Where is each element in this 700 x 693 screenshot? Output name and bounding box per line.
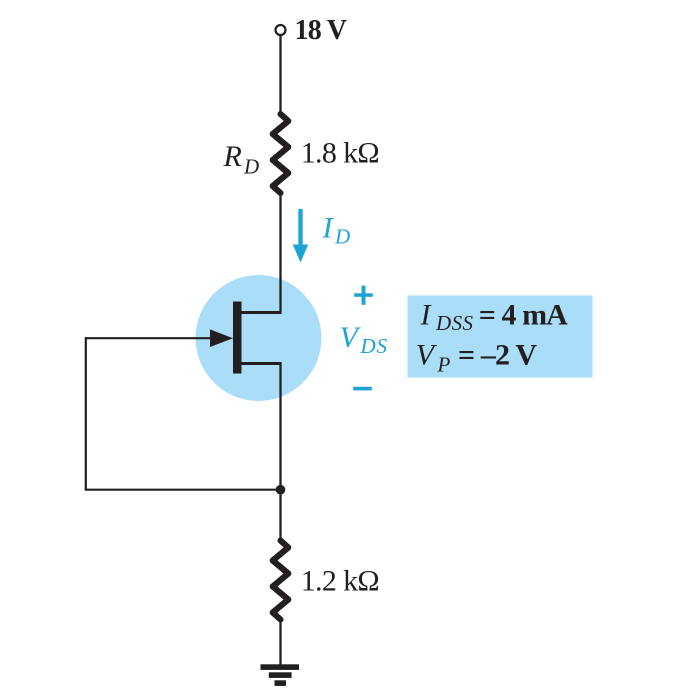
svg-text:= 4 mA: = 4 mA: [479, 299, 568, 332]
wire: feedback bottom horizontal: [85, 489, 281, 491]
terminal VDD: [276, 25, 286, 35]
wire: RD to drain: [279, 193, 281, 314]
wire: gate lead: [86, 337, 222, 339]
label minus: [353, 387, 372, 391]
svg-text:1.2 kΩ: 1.2 kΩ: [301, 565, 380, 598]
JFET gate arrow: [210, 329, 233, 347]
svg-text:DSS: DSS: [435, 311, 474, 335]
junction node: [276, 485, 286, 495]
wire: source to node: [279, 362, 281, 490]
svg-text:R: R: [223, 140, 242, 173]
svg-text:1.8 kΩ: 1.8 kΩ: [301, 137, 380, 170]
JFET drain lead: [241, 311, 281, 314]
wire: RS to ground: [279, 620, 281, 666]
svg-text:D: D: [334, 225, 350, 249]
wire: node to RS: [279, 490, 281, 541]
JFET source lead: [241, 362, 281, 365]
svg-text:P: P: [437, 353, 451, 377]
svg-text:DS: DS: [360, 334, 388, 358]
JFET circle highlight: [196, 275, 322, 401]
wire: feedback left vertical: [85, 337, 87, 490]
current arrow ID: [298, 209, 302, 247]
svg-text:= –2 V: = –2 V: [458, 339, 537, 372]
svg-text:D: D: [243, 155, 259, 179]
parameter box: [408, 296, 593, 378]
resistor RD: [273, 114, 289, 193]
label plus: [354, 293, 373, 297]
svg-text:18 V: 18 V: [295, 15, 348, 46]
wire: VDD to RD: [279, 35, 281, 114]
JFET Q1 channel bar: [233, 302, 242, 374]
ground: [261, 664, 300, 670]
resistor RS: [273, 541, 289, 620]
